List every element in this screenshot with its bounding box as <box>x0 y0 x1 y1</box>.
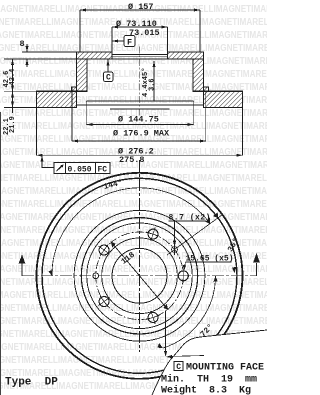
bolt circle (dash-dot) <box>96 232 184 320</box>
dim 42.6 line <box>12 59 14 91</box>
right hat wall <box>193 59 204 91</box>
svg-text:FC: FC <box>98 166 108 175</box>
svg-text:MAGNETIMARELLIMAGNETIMARELLIMA: MAGNETIMARELLIMAGNETIMARELLIMAGNETIMAREL… <box>0 81 267 92</box>
pin hole 1 (36.9deg) <box>172 245 178 256</box>
F label leader <box>112 40 124 42</box>
C label leader <box>107 60 109 73</box>
dim Ø144.75 line <box>86 124 193 126</box>
dim Ø144.75 ext lines <box>85 101 87 125</box>
left hat wall <box>77 59 88 91</box>
runout frame leader <box>42 155 54 167</box>
right section arrow <box>253 253 260 276</box>
svg-text:Weight 8.3 Kg: Weight 8.3 Kg <box>161 385 251 395</box>
dim 22.1 ext bottom <box>4 107 37 109</box>
36 deg arc arrowheads <box>232 267 237 273</box>
svg-text:MAGNETIMARELLIMAGNETIMARELLIMA: MAGNETIMARELLIMAGNETIMARELLIMAGNETIMAREL… <box>0 172 267 183</box>
center bore circle <box>112 248 167 303</box>
dim 42.6 ext, band top ext <box>4 90 37 92</box>
svg-text:275.8: 275.8 <box>119 155 145 165</box>
arrowheads section <box>11 9 243 162</box>
svg-text:MAGNETIMARELLIMAGNETIMARELLIMA: MAGNETIMARELLIMAGNETIMARELLIMAGNETIMAREL… <box>0 315 267 326</box>
dim Ø157 extension lines <box>79 10 81 52</box>
dim 8 line <box>26 44 28 52</box>
svg-text:MAGNETIMARELLIMAGNETIMARELLIMA: MAGNETIMARELLIMAGNETIMARELLIMAGNETIMAREL… <box>0 198 267 209</box>
36 deg label <box>226 237 241 254</box>
dim Ø73 extension lines <box>111 27 113 52</box>
outer circle <box>37 173 243 379</box>
dim 8 ext lines <box>22 51 77 53</box>
C box legend <box>174 362 183 371</box>
braking band inner circle <box>74 210 205 341</box>
legend white box <box>152 330 267 395</box>
svg-text:C: C <box>106 74 111 83</box>
right band lip <box>204 87 209 91</box>
svg-text:42.4: 42.4 <box>9 69 17 86</box>
dim Ø176.9 ext lines <box>71 87 73 141</box>
svg-text:MAGNETIMARELLIMAGNETIMARELLIMA: MAGNETIMARELLIMAGNETIMARELLIMAGNETIMAREL… <box>0 289 267 300</box>
svg-text:F: F <box>127 38 132 48</box>
scan edge artifact <box>0 112 1 395</box>
svg-text:MOUNTING FACE: MOUNTING FACE <box>186 363 264 374</box>
dim 22.1 line <box>12 91 14 113</box>
chamfer dim line <box>153 61 155 101</box>
hat interior bottom rim <box>86 100 193 102</box>
bore far-side lines <box>112 53 168 55</box>
svg-text:C: C <box>176 363 181 372</box>
118 diameter line <box>111 242 168 310</box>
pin hole 2 (180deg) <box>93 273 99 279</box>
dim Ø276.2 line <box>37 154 243 156</box>
vertical centerline <box>139 160 141 352</box>
dim Ø276.2 ext lines <box>36 108 38 156</box>
svg-text:21.9: 21.9 <box>9 116 17 133</box>
hub pilot circle <box>102 238 178 314</box>
dim Ø157 line <box>80 9 200 11</box>
band inner bottom rim <box>77 104 204 106</box>
svg-text:0.050: 0.050 <box>68 166 92 175</box>
horizontal centerline <box>22 275 257 277</box>
svg-text:Ø 157: Ø 157 <box>128 2 154 12</box>
72 deg ext line <box>165 311 167 354</box>
hat top flange right segment <box>168 52 204 59</box>
svg-text:Min. TH 19 mm: Min. TH 19 mm <box>161 374 257 386</box>
svg-text:MAGNETIMARELLIMAGNETIMARELLIMA: MAGNETIMARELLIMAGNETIMARELLIMAGNETIMAREL… <box>0 68 267 79</box>
svg-text:8: 8 <box>20 39 25 49</box>
svg-text:Ø 144.75: Ø 144.75 <box>118 115 159 125</box>
dim Ø73 line <box>112 26 168 28</box>
left section arrow <box>19 255 26 276</box>
C datum box <box>104 72 114 83</box>
72 deg label <box>199 323 216 340</box>
C legend leader <box>169 356 205 357</box>
svg-text:MAGNETIMARELLIMAGNETIMARELLIMA: MAGNETIMARELLIMAGNETIMARELLIMAGNETIMAREL… <box>0 185 267 196</box>
dim texts section <box>3 2 170 165</box>
F datum box <box>124 36 135 48</box>
svg-text:Ø 176.9 MAX: Ø 176.9 MAX <box>113 129 170 139</box>
pin1 radial extension line <box>167 215 222 255</box>
bore bottom chamfer line <box>110 108 170 110</box>
left band lip <box>72 87 77 91</box>
72 deg dimension arc <box>163 276 216 348</box>
right braking band (section) <box>204 91 243 107</box>
144 deg label <box>103 179 124 192</box>
outer chamfer circle <box>42 178 237 373</box>
section centerline <box>139 47 141 117</box>
svg-text:3.6: 3.6 <box>149 78 157 91</box>
dim Ø176.9 line <box>72 140 206 142</box>
118 label <box>120 251 137 267</box>
144 deg dimension arc <box>52 188 210 276</box>
hub flange circle <box>81 218 197 334</box>
bolt holes with crosses <box>94 225 190 326</box>
svg-text:Type DP: Type DP <box>5 377 58 389</box>
left braking band (section) <box>37 91 77 107</box>
svg-text:MAGNETIMARELLIMAGNETIMARELLIMA: MAGNETIMARELLIMAGNETIMARELLIMAGNETIMAREL… <box>0 276 267 287</box>
hat top flange left segment <box>77 52 113 59</box>
runout feature control frame <box>54 163 110 175</box>
band clearance circle <box>87 223 193 329</box>
